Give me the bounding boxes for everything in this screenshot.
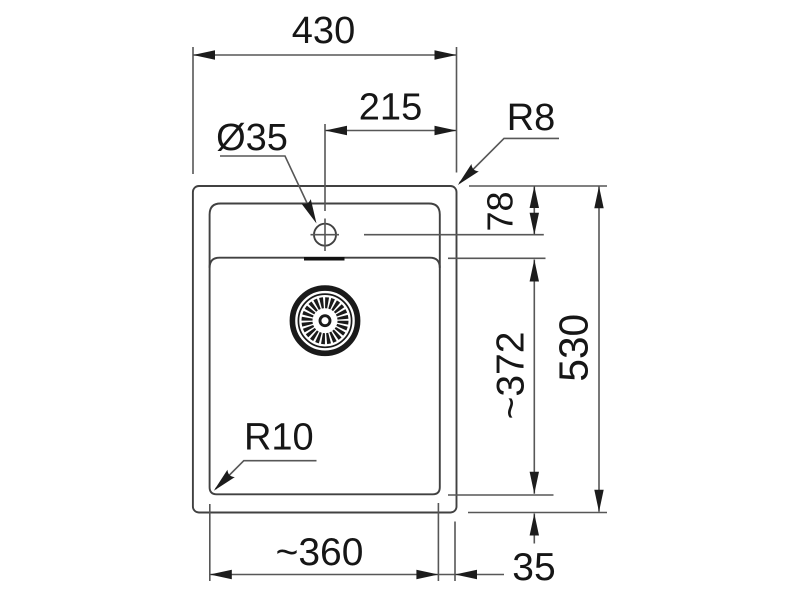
svg-text:Ø35: Ø35 [216,117,288,159]
svg-text:~372: ~372 [489,332,532,420]
extension line 430/215 right [456,47,458,173]
svg-text:R10: R10 [244,417,314,459]
leader arrow Ø35 [301,199,321,226]
svg-text:~360: ~360 [276,531,364,574]
svg-text:530: 530 [550,314,596,382]
leader arrow R10 [210,470,235,495]
leader arrow R8 [454,164,479,189]
strainer outer ring [292,288,357,353]
arrow ~372 top [530,260,539,282]
top edge extension right [469,185,607,187]
svg-text:35: 35 [512,546,555,589]
arrow 215 right [435,126,457,135]
dimension line 530 [598,186,600,512]
strainer center circle [320,316,330,326]
extension line ~360 right [437,503,439,581]
extension line ~360 left [209,504,211,581]
strainer slot ring [307,303,343,339]
svg-text:215: 215 [359,87,422,129]
arrow 530 bottom [594,490,603,512]
arrow 430 right [435,50,457,59]
dimension line 215 [325,130,457,132]
arrow ~360 left [210,570,232,579]
faucet horizontal centerline right [364,234,544,236]
arrow 430 left [193,50,215,59]
leader line R10 [216,461,317,489]
extension line 430 left [192,47,194,174]
arrow 35 horizontal right [455,570,477,579]
dimension line 430 [193,54,457,56]
svg-text:78: 78 [480,191,521,231]
overflow slot bar [304,257,345,261]
extension line 35 right [454,522,456,582]
sink outer rect [193,186,457,513]
dimension line 78 / ~372 / 35v [533,186,535,544]
bowl bottom extension right [448,494,554,496]
arrow ~372 bottom [530,472,539,494]
svg-text:R8: R8 [507,97,556,139]
svg-text:430: 430 [292,10,355,52]
dimension line ~360 / 35h [210,574,504,576]
bowl top edge [210,258,440,268]
faucet hole circle [314,224,336,246]
leader line R8 [460,138,560,183]
arrow 215 left [325,126,347,135]
faucet crosshair horizontal [311,234,340,236]
arrow 78 bottom [530,213,539,235]
arrow 78 top [530,186,539,208]
sink rim rect [210,204,440,495]
leader line Ø35 [220,156,315,219]
faucet vertical centerline [324,124,326,251]
arrow 35 vertical up [530,514,539,536]
arrow ~360 right / 35 left [416,570,438,579]
outer bottom extension right [468,512,607,514]
strainer thin ring [298,294,351,347]
arrow 530 top [594,186,603,208]
bowl top extension right [448,257,546,259]
